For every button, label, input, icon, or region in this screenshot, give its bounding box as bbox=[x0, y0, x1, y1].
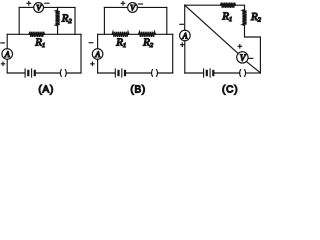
voltmeter V1 minus label bbox=[45, 2, 49, 4]
svg-text:(A): (A) bbox=[38, 84, 54, 95]
battery cell plate 2 (short -) (B) bbox=[124, 71, 126, 75]
wire A resistor rail bbox=[7, 33, 81, 35]
wire B top rail left bbox=[104, 6, 127, 8]
voltmeter V3 minus label bbox=[249, 57, 253, 59]
ammeter A3 minus label bbox=[180, 23, 184, 25]
switch key arc left (A) bbox=[60, 70, 61, 77]
svg-text:R2: R2 bbox=[142, 36, 154, 49]
wire C left vertical upper bbox=[184, 5, 186, 30]
ammeter A1 plus label bbox=[1, 62, 4, 65]
resistor R1 (C) zigzag bbox=[221, 3, 236, 8]
battery cell plate (short -) (C) bbox=[206, 71, 208, 75]
wire C diagonal from voltmeter bbox=[247, 62, 261, 73]
svg-text:R1: R1 bbox=[221, 10, 232, 23]
wire A left vertical upper bbox=[6, 34, 8, 48]
wire A top rail left bbox=[19, 6, 34, 8]
svg-text:R2: R2 bbox=[61, 12, 73, 25]
battery cell plate 2 (long +) (A) bbox=[31, 69, 33, 77]
wire B bottom rail mid bbox=[126, 72, 152, 74]
wire B resistor rail bbox=[98, 33, 173, 35]
wire A left vertical lower bbox=[6, 59, 8, 73]
switch key arc right (A) bbox=[65, 70, 66, 77]
resistor R1 (B) zigzag bbox=[112, 32, 129, 37]
resistor R2 (A) lead top bbox=[57, 7, 59, 10]
wire B bottom rail right bbox=[158, 72, 173, 74]
resistor R2 (A) lead bottom bbox=[57, 26, 59, 34]
voltmeter V2 circle bbox=[128, 3, 138, 13]
wire A bottom rail left bbox=[7, 72, 25, 74]
svg-text:A: A bbox=[94, 50, 100, 59]
ammeter A1 circle bbox=[2, 49, 13, 60]
wire A bottom rail mid bbox=[36, 72, 61, 74]
wire B left vertical upper bbox=[97, 34, 99, 48]
battery cell plate 2 (short -) (C) bbox=[212, 71, 214, 75]
voltmeter V2 plus label bbox=[121, 2, 125, 6]
wire B top rail corner down bbox=[166, 7, 168, 34]
wire A right vertical bbox=[80, 34, 82, 73]
resistor R2 (C) lead top bbox=[244, 5, 246, 9]
svg-text:A: A bbox=[4, 50, 10, 59]
wire C right jog bbox=[245, 26, 261, 74]
wire B left vertical lower bbox=[97, 59, 99, 73]
resistor R2 (C) zigzag bbox=[242, 10, 246, 26]
battery cell plate 2 (long +) (C) bbox=[209, 69, 211, 77]
battery cell plate (long +) (C) bbox=[203, 69, 205, 77]
battery cell plate (short -) (A) bbox=[27, 71, 29, 75]
svg-text:(B): (B) bbox=[130, 84, 146, 95]
voltmeter V3 plus label bbox=[238, 45, 242, 49]
wire C bottom rail right bbox=[246, 72, 261, 74]
wire A bottom rail right bbox=[67, 72, 82, 74]
wire C left vertical lower bbox=[184, 41, 186, 73]
wire C diagonal to voltmeter bbox=[185, 5, 239, 53]
battery cell plate 2 (short -) (A) bbox=[34, 71, 36, 75]
wire B right vertical bbox=[172, 34, 174, 73]
wire C top rail bbox=[185, 4, 245, 6]
voltmeter V1 circle bbox=[34, 3, 44, 13]
svg-text:(C): (C) bbox=[222, 84, 238, 95]
ammeter A3 circle bbox=[180, 30, 191, 41]
wire A top rail right bbox=[44, 6, 76, 8]
ammeter A1 minus label bbox=[1, 42, 5, 44]
svg-text:R1: R1 bbox=[115, 36, 126, 49]
wire B voltmeter stub bbox=[103, 7, 105, 34]
resistor R1 (A) zigzag bbox=[29, 32, 45, 37]
wire C bottom rail mid bbox=[214, 72, 240, 74]
switch key arc right (C) bbox=[245, 70, 246, 77]
battery cell plate (long +) (A) bbox=[24, 69, 26, 77]
wire A voltmeter stub bbox=[18, 7, 20, 34]
voltmeter V2 minus label bbox=[138, 3, 142, 5]
battery cell plate 2 (long +) (B) bbox=[121, 69, 123, 77]
battery cell plate (long +) (B) bbox=[114, 69, 116, 77]
svg-text:A: A bbox=[182, 32, 188, 41]
wire B bottom rail left bbox=[98, 72, 116, 74]
switch key arc right (B) bbox=[157, 70, 158, 77]
voltmeter V1 plus label bbox=[27, 2, 31, 6]
voltmeter V3 circle bbox=[237, 52, 248, 63]
ammeter A2 minus label bbox=[89, 42, 93, 44]
ammeter A2 plus label bbox=[91, 62, 94, 65]
svg-text:R1: R1 bbox=[34, 36, 45, 49]
switch key arc left (C) bbox=[240, 70, 241, 77]
svg-text:R2: R2 bbox=[250, 11, 262, 24]
wire A top rail corner down bbox=[74, 7, 76, 34]
resistor R2 (A) zigzag bbox=[56, 10, 60, 26]
ammeter A2 circle bbox=[92, 49, 103, 60]
wire C bottom rail left bbox=[185, 72, 204, 74]
resistor R2 (B) zigzag bbox=[139, 32, 156, 37]
battery cell plate (short -) (B) bbox=[117, 71, 119, 75]
ammeter A3 plus label bbox=[181, 43, 184, 46]
switch key arc left (B) bbox=[152, 70, 153, 77]
wire B top rail right bbox=[137, 6, 166, 8]
